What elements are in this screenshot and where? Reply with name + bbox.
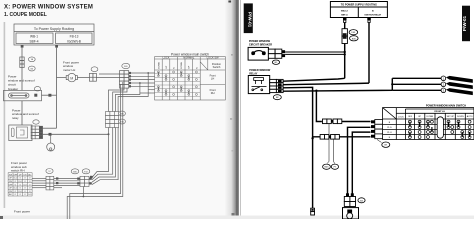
bottom connector (right page): [344, 197, 355, 207]
svg-text:UP: UP: [189, 65, 191, 69]
inline connector pair on h1: [323, 119, 342, 124]
svg-text:Switch: Switch: [213, 65, 221, 69]
wire w2: relay to v2: [283, 83, 369, 85]
branch from w4 down to h1: [316, 91, 321, 122]
oval id right: [331, 164, 338, 169]
svg-text:SBF-4: SBF-4: [341, 13, 348, 16]
wire v1: supply drop left: [344, 23, 346, 79]
black pins flanking connector pair: [77, 178, 80, 180]
black flag label 1: [446, 76, 473, 83]
oval label 7A: [28, 57, 35, 62]
svg-text:O-O: O-O: [18, 181, 22, 183]
wire v2: supply drop right: [368, 23, 370, 84]
page connector circle 3: [441, 88, 446, 93]
breaker connector: [268, 49, 281, 58]
contact circles right table: [408, 120, 471, 138]
junction dot wire4: [139, 82, 141, 84]
svg-text:DOWN: DOWN: [158, 61, 160, 68]
svg-text:TO POWER SUPPLY ROUTING: TO POWER SUPPLY ROUTING: [341, 4, 377, 7]
svg-text:PL.D: PL.D: [387, 127, 392, 129]
label: Front power window motor LH: [63, 61, 79, 72]
wire: motor feed from supply vertical: [57, 77, 120, 79]
connector pair B: [80, 176, 89, 186]
svg-text:UP: UP: [166, 65, 168, 69]
top gutter dot: [228, 1, 231, 3]
svg-text:OFF: OFF: [408, 116, 413, 118]
breaker double wire to v1: [285, 51, 345, 53]
outer vertical A: [70, 84, 121, 219]
svg-text:IGNITION RELAY: IGNITION RELAY: [364, 13, 381, 16]
left vertical scrollbar strip: [4, 22, 6, 208]
second wire into main connector: [99, 73, 120, 75]
switch row2 wire with corner down to motor: [348, 127, 371, 193]
noise suppressor below relay: [50, 134, 52, 143]
circuit breaker box (left page): [4, 90, 42, 100]
svg-text:FRONT LH: FRONT LH: [434, 111, 445, 113]
label: POWER WINDOW RELAY: [249, 69, 271, 76]
oval below main switch: [377, 140, 382, 143]
svg-text:O-O: O-O: [28, 194, 32, 196]
wire: breaker to supply vertical: [42, 94, 57, 96]
svg-text:LOCK: LOCK: [398, 116, 404, 118]
circuit breaker box (right page): [248, 47, 268, 60]
oval label F above main connector: [122, 63, 130, 68]
label: POWER WINDOW CIRCUIT BREAKER: [249, 40, 272, 47]
label: Front power window sub switch RH: [11, 161, 27, 173]
flag vertical: [391, 78, 393, 90]
junction on w4: [315, 90, 317, 92]
svg-text:POWER WINDOW: POWER WINDOW: [249, 40, 271, 43]
oval labels F on v1: [349, 30, 358, 35]
svg-text:LOCK SW: LOCK SW: [207, 56, 220, 60]
conn2 entry pin blob: [90, 176, 93, 178]
outer vertical B: [67, 82, 123, 219]
svg-text:X: POWER WINDOW SYSTEM: X: POWER WINDOW SYSTEM: [4, 5, 93, 11]
flag wire f3: [392, 89, 441, 91]
wire: supply left drop: [21, 48, 23, 91]
inline connector on bundle: [106, 112, 119, 128]
page connector circle 2: [441, 82, 446, 87]
connector on left drop: [20, 57, 24, 68]
breaker symbol right page: [252, 51, 265, 55]
sub switch table: [8, 173, 32, 196]
label: Power window and sunroof relay: [12, 108, 39, 120]
svg-text:NORMAL: NORMAL: [183, 56, 195, 60]
pin under box right: [55, 45, 58, 48]
motor symbol: [66, 73, 77, 81]
bundle vertical 2: [92, 88, 127, 180]
main connector F (two pin columns): [120, 71, 129, 89]
wire w4: relay to flag vertical: [283, 89, 392, 92]
breaker output pin: [34, 94, 37, 97]
right index tab P/W-01: [462, 6, 470, 42]
svg-text:motor LH: motor LH: [63, 68, 75, 72]
junction dot wire1: [147, 72, 149, 74]
svg-text:SW: SW: [9, 174, 12, 176]
svg-text:DOWN: DOWN: [427, 116, 434, 118]
wire from sub area down (double drop near x67): [54, 187, 62, 189]
relay connector pins column: [31, 126, 42, 139]
svg-text:SET UP: SET UP: [447, 116, 455, 118]
wire: relay to supply vertical: [43, 127, 57, 129]
gutter specks: [231, 54, 233, 56]
svg-text:LOCK: LOCK: [162, 56, 169, 60]
main switch table (right page): [383, 108, 474, 140]
pin under box left: [21, 45, 24, 48]
svg-text:M: M: [70, 76, 73, 80]
oval label above connector 57: [46, 169, 53, 174]
svg-text:To Power Supply Routing: To Power Supply Routing: [34, 27, 74, 31]
oval right of bottom connector: [358, 198, 365, 203]
page connector circle 1: [441, 76, 446, 81]
box bottom pins: [343, 18, 347, 21]
svg-text:RELAY: RELAY: [249, 72, 258, 75]
box: To Power Supply Routing: [14, 24, 94, 45]
pin on that wire: [48, 94, 51, 97]
bundle vertical 3: [92, 93, 140, 182]
conn F output pins: [129, 72, 131, 87]
oval label above relay connector: [33, 120, 39, 124]
junction pins right of connector 57: [56, 177, 58, 179]
svg-text:POWER WINDOW MAIN SWITCH: POWER WINDOW MAIN SWITCH: [426, 104, 466, 108]
wires connector 57 to connector pair: [54, 179, 80, 186]
connector pair bottom drop: [82, 187, 84, 197]
oval id left: [323, 164, 331, 169]
bottom pin on long drop: [311, 208, 315, 215]
rotated sub headers: [158, 61, 198, 68]
black flag label 2: [446, 82, 473, 89]
relay box (right page): [248, 76, 269, 94]
relay box (left page): [9, 125, 32, 141]
table row lines: [155, 74, 201, 97]
svg-text:1. COUPE MODEL: 1. COUPE MODEL: [4, 12, 47, 18]
capsule in middle column: [437, 117, 443, 138]
fan wires connector to table: [129, 73, 155, 93]
wire: breaker down to relay: [21, 101, 23, 125]
breaker symbol: [9, 93, 30, 98]
svg-text:P/W-01: P/W-01: [462, 15, 467, 31]
bundle vertical 1: [92, 88, 124, 177]
switch row3 wire with corner down to motor: [352, 132, 370, 193]
wire h1: to main switch row B: [322, 121, 371, 123]
svg-text:SBF-4: SBF-4: [29, 39, 38, 43]
relay internals: [11, 127, 27, 138]
relay internals right page: [252, 78, 267, 91]
wires sub switch to connector 57: [32, 179, 46, 188]
wire w1: relay to v1: [283, 78, 345, 81]
svg-text:O-O: O-O: [23, 184, 27, 186]
main switch left pin block: [375, 120, 383, 139]
wire: supply right drop: [56, 48, 58, 129]
svg-text:O-O: O-O: [18, 191, 22, 193]
bundle vertical 4: [92, 90, 148, 185]
left page scan tint: [0, 0, 228, 219]
svg-text:O-O: O-O: [14, 178, 18, 180]
contact circles in table: [157, 71, 197, 95]
left index tab P/W-01: [244, 3, 253, 33]
drop from dot1: [148, 73, 151, 90]
svg-text:P/W-01: P/W-01: [247, 12, 252, 28]
svg-text:DOWN: DOWN: [181, 61, 183, 68]
oval below breaker connector: [272, 60, 279, 64]
oval labels right of inline connector: [119, 111, 126, 116]
svg-text:O-O: O-O: [14, 188, 18, 190]
flag wire f2: [392, 83, 441, 85]
svg-text:WB-12: WB-12: [341, 11, 349, 13]
oval below relay connector: [273, 95, 281, 100]
table frame: [155, 57, 226, 100]
main switch table (left page): [155, 52, 226, 100]
junction on w3 for h2: [311, 137, 313, 139]
svg-text:POWER WINDOW: POWER WINDOW: [249, 69, 271, 72]
wire: relay long output to bundle: [43, 133, 109, 135]
oval labels above connector pair: [71, 169, 79, 174]
svg-text:CIRCUIT BREAKER: CIRCUIT BREAKER: [249, 43, 272, 46]
svg-text:Front power: Front power: [14, 210, 30, 214]
wire w3: relay to long drop: [283, 87, 313, 208]
svg-text:FB-13: FB-13: [70, 35, 79, 39]
label: Power window and sunroof circuit breaker: [8, 75, 35, 91]
wire h2: to main switch row E: [313, 136, 371, 138]
relay connector: [270, 79, 283, 92]
black flag label 3: [446, 88, 473, 95]
bottom scrollbar band: [0, 216, 474, 220]
bottom box with motor (cut off): [343, 208, 359, 219]
inline connector on v1: [342, 29, 347, 44]
svg-text:IG(SW)-B: IG(SW)-B: [67, 39, 81, 43]
svg-text:switch RH: switch RH: [11, 169, 25, 173]
svg-text:WB-1: WB-1: [30, 35, 38, 39]
drop from dot4: [140, 83, 151, 93]
flag wire f1: [392, 77, 441, 79]
oval label B6: [28, 66, 35, 71]
svg-text:RH: RH: [211, 91, 215, 95]
box: TO POWER SUPPLY ROUTING (right page): [330, 2, 387, 18]
svg-text:relay: relay: [12, 116, 19, 120]
junction dot at bundle: [108, 133, 110, 135]
svg-text:PL.U: PL.U: [387, 132, 392, 134]
oval above motor connector: [91, 67, 98, 72]
leader lines to ovals: [327, 124, 329, 164]
svg-text:LH: LH: [211, 77, 214, 81]
inline connector pair on h2: [320, 135, 339, 140]
svg-text:DOWN: DOWN: [457, 116, 464, 118]
connector 57: [46, 176, 54, 190]
svg-text:AUTO: AUTO: [467, 115, 473, 118]
motor connector: [89, 73, 96, 81]
